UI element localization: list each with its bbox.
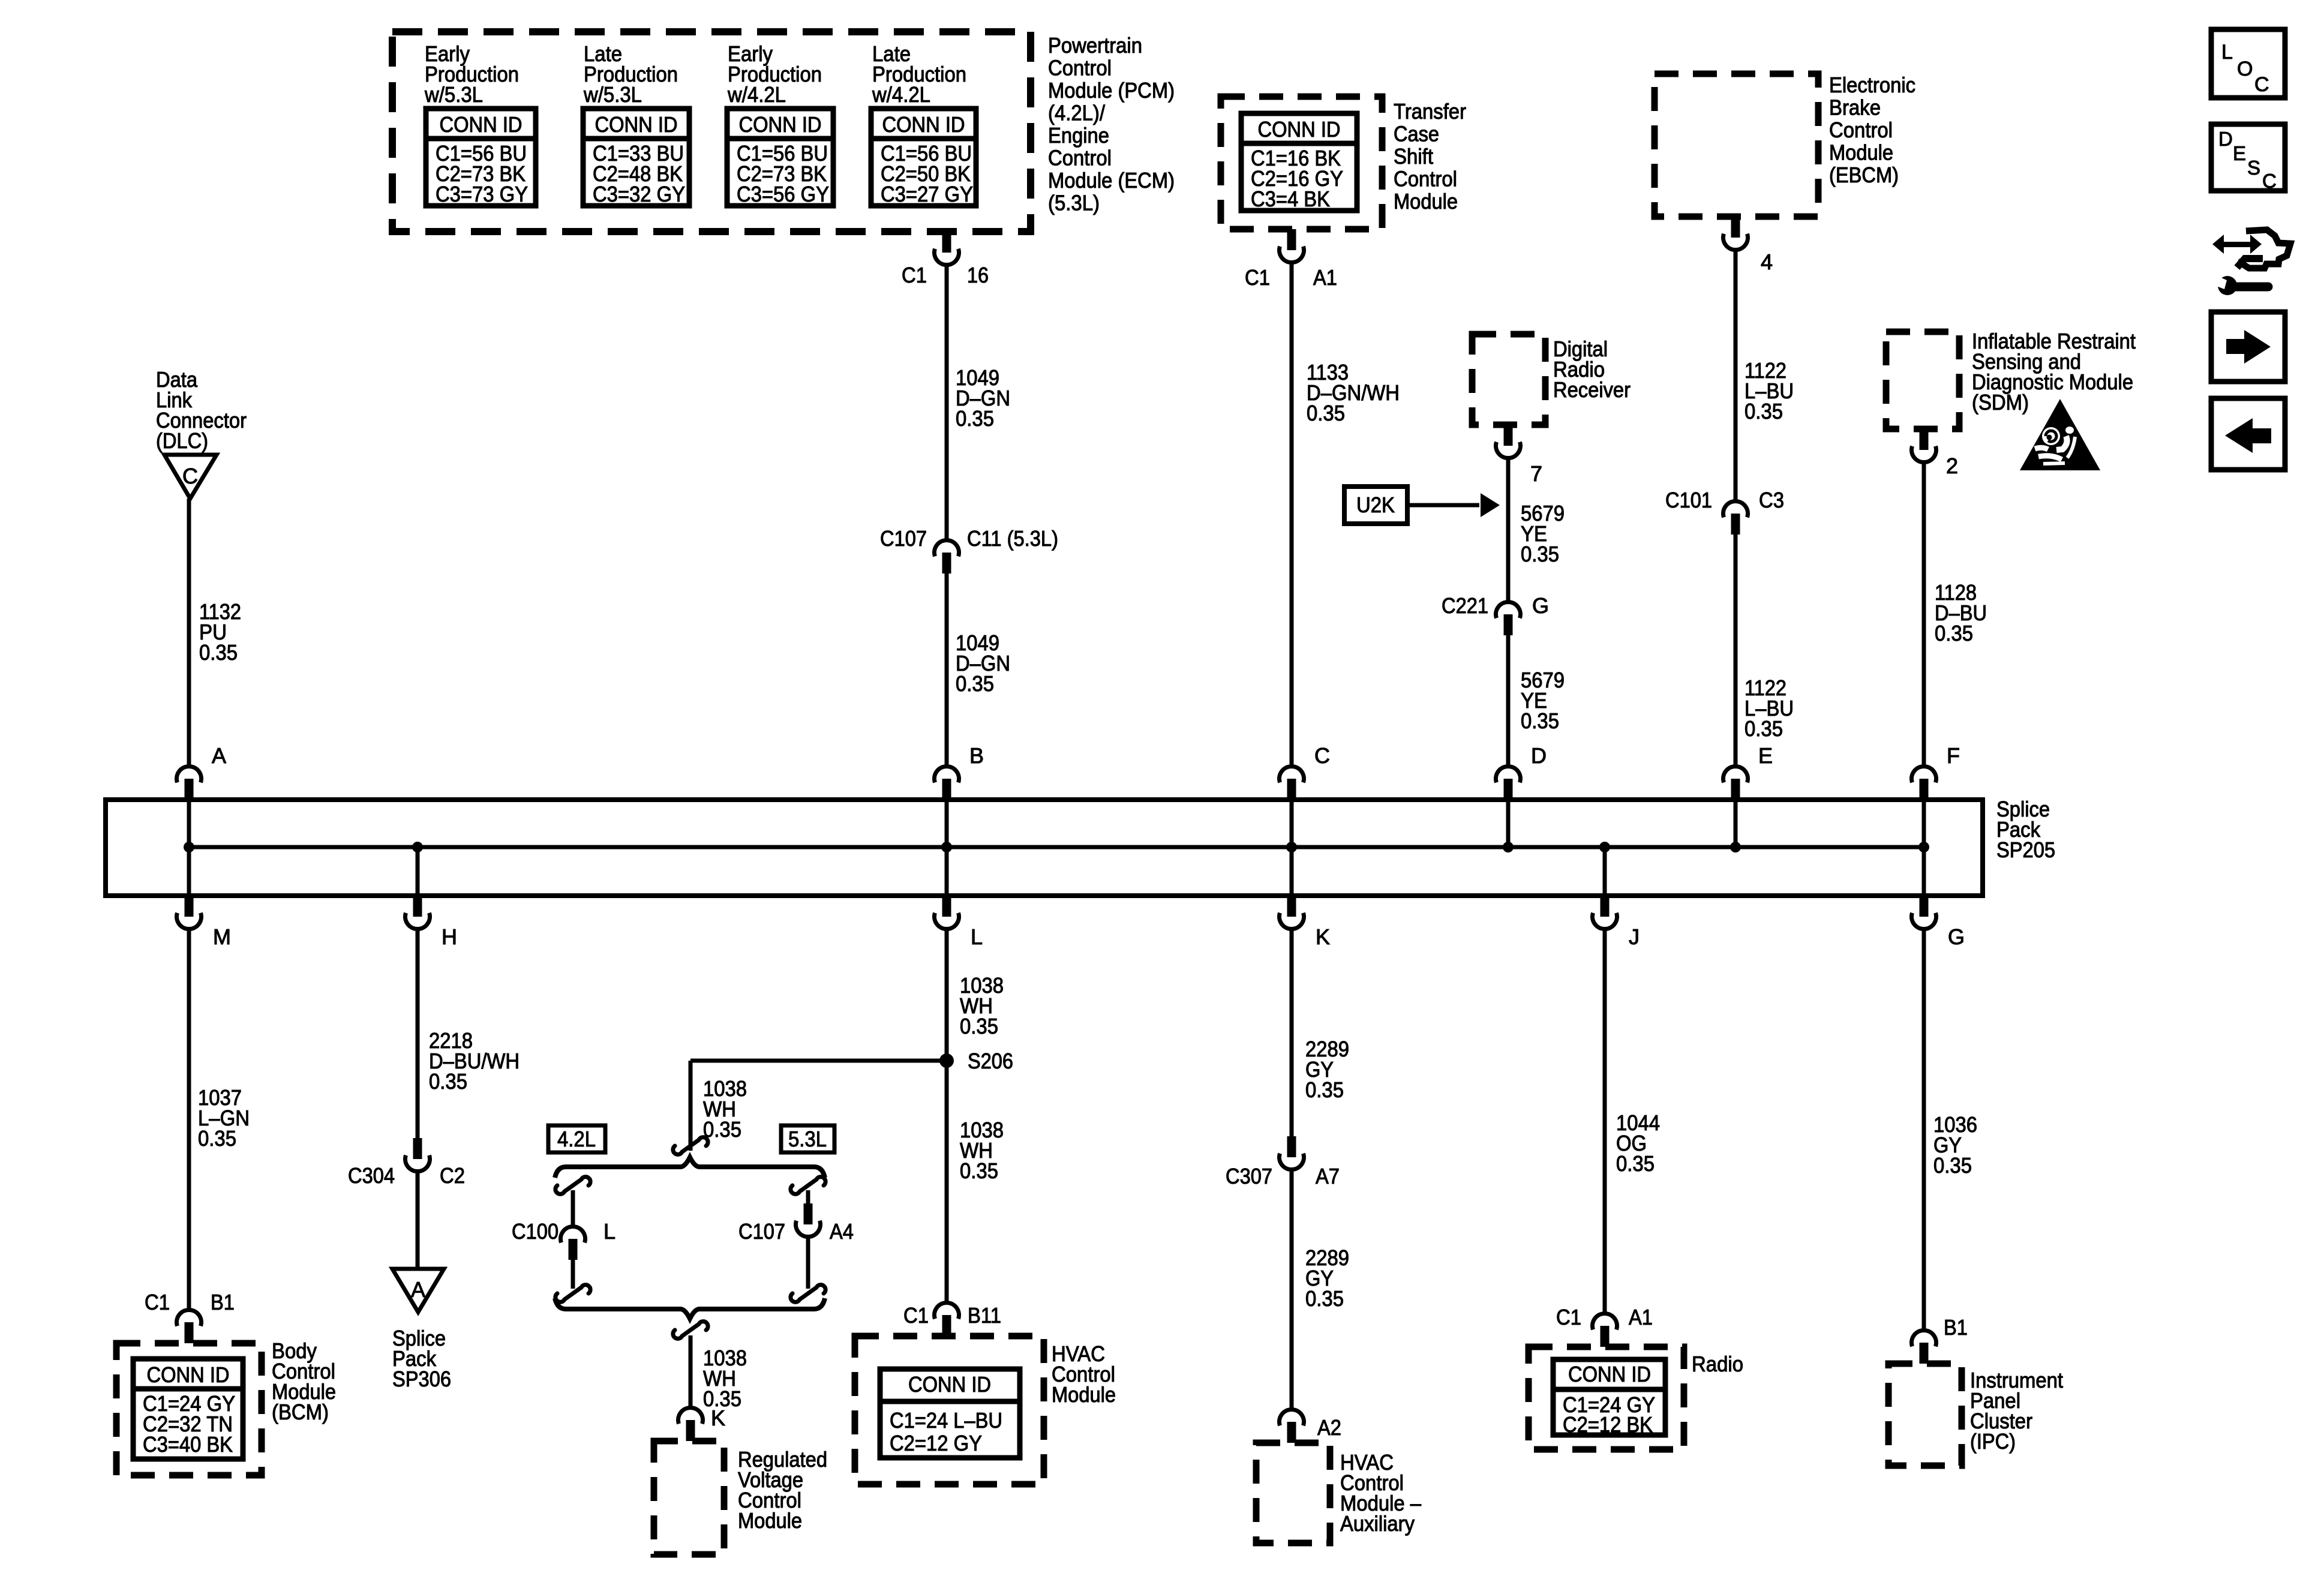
svg-text:C1: C1 <box>1556 1305 1581 1329</box>
svg-text:CONN ID: CONN ID <box>1258 117 1341 142</box>
svg-text:Powertrain: Powertrain <box>1048 33 1142 58</box>
svg-text:Shift: Shift <box>1394 144 1433 169</box>
svg-text:K: K <box>711 1406 725 1430</box>
svg-text:K: K <box>1316 924 1330 949</box>
svg-text:(5.3L): (5.3L) <box>1048 191 1100 215</box>
svg-text:Control: Control <box>1048 146 1112 170</box>
svg-text:7: 7 <box>1530 461 1542 486</box>
svg-text:A2: A2 <box>1317 1415 1341 1440</box>
svg-text:CONN ID: CONN ID <box>1568 1362 1651 1386</box>
svg-text:D: D <box>2218 128 2233 150</box>
svg-text:H: H <box>442 924 457 949</box>
svg-text:C: C <box>2262 170 2277 192</box>
svg-text:C1=24 L–BU: C1=24 L–BU <box>890 1408 1002 1433</box>
svg-text:E: E <box>1758 743 1773 768</box>
svg-text:C221: C221 <box>1442 593 1488 618</box>
svg-text:0.35: 0.35 <box>1521 709 1559 733</box>
svg-text:M: M <box>213 924 231 949</box>
svg-text:4: 4 <box>1761 250 1773 274</box>
svg-text:0.35: 0.35 <box>429 1069 467 1094</box>
svg-text:CONN ID: CONN ID <box>739 112 822 137</box>
svg-text:Case: Case <box>1394 122 1439 146</box>
svg-text:w/5.3L: w/5.3L <box>583 82 642 107</box>
svg-text:G: G <box>1532 593 1549 618</box>
svg-text:U2K: U2K <box>1356 493 1395 517</box>
svg-text:0.35: 0.35 <box>1305 1077 1344 1102</box>
svg-text:(4.2L)/: (4.2L)/ <box>1048 101 1105 125</box>
svg-text:C1: C1 <box>902 263 927 287</box>
svg-text:A1: A1 <box>1313 265 1337 290</box>
svg-text:C2=12 GY: C2=12 GY <box>890 1431 982 1455</box>
svg-text:w/4.2L: w/4.2L <box>872 82 930 107</box>
svg-text:16: 16 <box>967 263 989 287</box>
svg-text:C2=12 BK: C2=12 BK <box>1563 1412 1653 1437</box>
svg-text:C3=73 GY: C3=73 GY <box>436 182 528 206</box>
svg-text:CONN ID: CONN ID <box>908 1372 991 1397</box>
svg-text:B: B <box>969 743 984 768</box>
svg-text:(DLC): (DLC) <box>156 428 208 453</box>
svg-text:Control: Control <box>1048 56 1112 80</box>
svg-text:C1: C1 <box>903 1303 929 1328</box>
svg-text:Control: Control <box>1829 118 1893 142</box>
svg-text:C304: C304 <box>348 1163 395 1188</box>
svg-text:(EBCM): (EBCM) <box>1829 163 1899 187</box>
svg-text:C1: C1 <box>1245 265 1270 290</box>
svg-text:C100: C100 <box>512 1219 559 1244</box>
svg-text:0.35: 0.35 <box>703 1117 741 1142</box>
svg-text:Auxiliary: Auxiliary <box>1340 1511 1415 1536</box>
svg-text:SP306: SP306 <box>392 1367 451 1391</box>
svg-text:Module: Module <box>1052 1382 1116 1407</box>
svg-text:S206: S206 <box>968 1049 1013 1073</box>
svg-text:(BCM): (BCM) <box>272 1400 329 1424</box>
svg-text:C3=56 GY: C3=56 GY <box>737 182 829 206</box>
svg-text:A7: A7 <box>1316 1164 1340 1188</box>
svg-text:F: F <box>1947 743 1960 768</box>
svg-text:SP205: SP205 <box>1996 837 2055 862</box>
svg-text:J: J <box>1629 924 1640 949</box>
svg-text:Module (PCM): Module (PCM) <box>1048 78 1175 103</box>
svg-text:Electronic: Electronic <box>1829 73 1915 97</box>
svg-text:(SDM): (SDM) <box>1972 390 2029 415</box>
svg-text:0.35: 0.35 <box>956 406 994 431</box>
svg-text:Transfer: Transfer <box>1394 99 1466 124</box>
svg-text:0.35: 0.35 <box>1305 1286 1344 1311</box>
svg-text:Radio: Radio <box>1692 1352 1743 1376</box>
svg-text:Module (ECM): Module (ECM) <box>1048 168 1175 193</box>
svg-text:4.2L: 4.2L <box>557 1127 596 1151</box>
svg-text:0.35: 0.35 <box>1307 401 1345 425</box>
svg-text:0.35: 0.35 <box>960 1158 998 1183</box>
svg-text:C3=40 BK: C3=40 BK <box>143 1432 233 1457</box>
svg-text:C11 (5.3L): C11 (5.3L) <box>967 526 1058 551</box>
svg-text:A: A <box>411 1277 425 1302</box>
svg-text:C1: C1 <box>145 1290 170 1314</box>
svg-text:0.35: 0.35 <box>199 640 238 665</box>
svg-text:C307: C307 <box>1226 1164 1272 1188</box>
svg-text:CONN ID: CONN ID <box>440 112 523 137</box>
svg-text:C: C <box>182 464 198 488</box>
svg-text:Control: Control <box>1394 167 1457 191</box>
svg-text:D: D <box>1531 743 1547 768</box>
svg-text:CONN ID: CONN ID <box>147 1362 230 1387</box>
svg-text:B1: B1 <box>1944 1315 1968 1340</box>
svg-text:E: E <box>2233 142 2246 164</box>
svg-text:0.35: 0.35 <box>198 1126 236 1151</box>
svg-text:2: 2 <box>1946 454 1958 478</box>
svg-text:0.35: 0.35 <box>1616 1151 1655 1176</box>
svg-text:L: L <box>971 924 983 949</box>
svg-text:L: L <box>2221 41 2233 64</box>
svg-text:w/4.2L: w/4.2L <box>727 82 786 107</box>
svg-text:C2: C2 <box>440 1163 465 1188</box>
svg-text:CONN ID: CONN ID <box>595 112 678 137</box>
svg-text:C3: C3 <box>1759 488 1784 512</box>
svg-text:0.35: 0.35 <box>1521 542 1559 566</box>
svg-text:A4: A4 <box>830 1219 854 1244</box>
svg-text:Receiver: Receiver <box>1553 377 1631 402</box>
svg-text:CONN ID: CONN ID <box>882 112 965 137</box>
svg-text:Module: Module <box>738 1508 802 1533</box>
svg-text:C107: C107 <box>880 526 927 551</box>
svg-text:G: G <box>1948 924 1965 949</box>
svg-text:C101: C101 <box>1665 488 1712 512</box>
svg-text:S: S <box>2247 157 2260 179</box>
svg-text:L: L <box>603 1219 615 1244</box>
svg-text:5.3L: 5.3L <box>788 1127 827 1151</box>
svg-text:O: O <box>2237 58 2253 80</box>
svg-text:C: C <box>1314 743 1330 768</box>
svg-text:B1: B1 <box>211 1290 235 1314</box>
svg-text:C3=32 GY: C3=32 GY <box>593 182 685 206</box>
svg-text:0.35: 0.35 <box>1933 1153 1972 1178</box>
svg-text:w/5.3L: w/5.3L <box>424 82 483 107</box>
svg-text:C3=27 GY: C3=27 GY <box>881 182 973 206</box>
svg-text:0.35: 0.35 <box>1744 399 1783 424</box>
svg-text:Module: Module <box>1394 189 1458 214</box>
svg-text:0.35: 0.35 <box>1935 621 1973 646</box>
svg-text:C: C <box>2254 73 2269 96</box>
svg-text:Engine: Engine <box>1048 123 1109 148</box>
svg-text:A1: A1 <box>1629 1305 1653 1329</box>
svg-text:Module: Module <box>1829 140 1893 165</box>
svg-text:A: A <box>212 743 226 768</box>
svg-text:C3=4 BK: C3=4 BK <box>1251 187 1330 211</box>
svg-text:(IPC): (IPC) <box>1970 1429 2016 1454</box>
svg-text:0.35: 0.35 <box>1744 716 1783 741</box>
svg-text:B11: B11 <box>968 1303 1001 1328</box>
svg-text:C107: C107 <box>738 1219 785 1244</box>
svg-text:0.35: 0.35 <box>960 1014 998 1038</box>
svg-text:Brake: Brake <box>1829 95 1881 120</box>
svg-text:0.35: 0.35 <box>956 671 994 696</box>
